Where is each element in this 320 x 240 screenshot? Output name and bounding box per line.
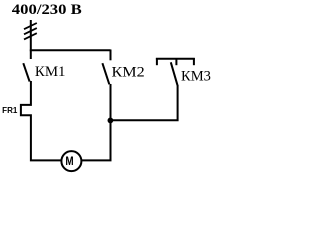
contactor contact KM2 fixed stub (110, 50, 112, 61)
motor M circle (61, 151, 81, 171)
svg-text:FR1: FR1 (2, 106, 18, 115)
svg-text:КМ3: КМ3 (181, 69, 211, 85)
contactor contact KM1 blade (23, 63, 29, 81)
svg-text:КМ1: КМ1 (35, 64, 66, 80)
KM3 bar tick left (156, 58, 158, 65)
wire KM2 to node A (110, 84, 112, 120)
wire KM3 to node A (110, 85, 177, 120)
contactor contact KM1 fixed stub (30, 50, 32, 60)
contactor contact KM2 blade (102, 63, 109, 84)
contactor KM3 top bar (156, 58, 195, 60)
svg-text:M: M (65, 155, 73, 168)
wire KM1 to FR1 heater jog to motor (left branch) (21, 81, 61, 160)
three-phase slash marks (24, 23, 37, 39)
contactor contact KM3 blade (171, 62, 178, 85)
KM3 bar tick middle (175, 58, 177, 65)
node A junction dot (108, 118, 114, 124)
svg-text:КМ2: КМ2 (112, 65, 145, 81)
wire supply drop and top bus (31, 20, 111, 50)
KM3 bar tick right (193, 58, 195, 65)
wire motor to node A (right bottom branch) (82, 120, 111, 160)
svg-text:400/230 В: 400/230 В (12, 2, 82, 18)
